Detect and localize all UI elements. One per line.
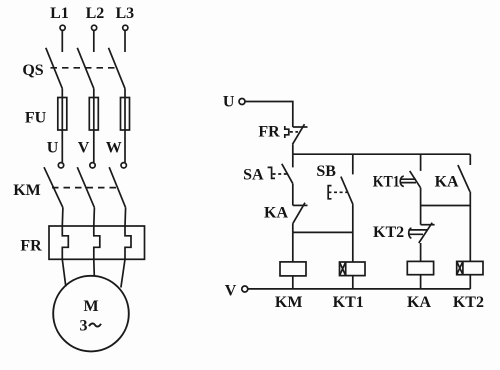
svg-text:SA: SA xyxy=(243,167,264,184)
FR NC contact seat tick xyxy=(293,126,308,128)
svg-text:SB: SB xyxy=(316,163,336,180)
wire KA right contact to node xyxy=(469,192,471,206)
wire KM to FR phase 3 xyxy=(124,208,127,226)
FR thermal actuator bracket xyxy=(285,126,289,138)
wire L2 terminal to QS xyxy=(93,31,95,52)
wire FR to motor lead 1 xyxy=(62,259,66,286)
terminal L2 xyxy=(92,25,97,30)
KM main contact blade phase 3 xyxy=(109,167,125,207)
KT1 delay symbol chords xyxy=(401,179,416,182)
wire FR to motor lead 3 xyxy=(121,259,125,287)
terminal L3 xyxy=(123,25,128,30)
FR heater element phase 2 xyxy=(94,226,100,259)
svg-text:FR: FR xyxy=(258,124,280,141)
KM main contact fixed terminal circle phase 3 xyxy=(121,163,126,168)
terminal U xyxy=(239,99,245,105)
svg-text:KA: KA xyxy=(264,205,288,222)
svg-text:V: V xyxy=(78,140,90,157)
svg-text:M: M xyxy=(83,298,98,315)
label SB xyxy=(316,163,336,180)
SA switch blade xyxy=(282,164,293,184)
label SA xyxy=(243,167,264,184)
svg-text:KM: KM xyxy=(13,182,41,199)
svg-text:L1: L1 xyxy=(50,5,69,22)
KA NC contact seat tick xyxy=(293,204,308,206)
wire node to KT2 contact xyxy=(420,206,422,225)
label L3 xyxy=(115,5,134,22)
label KA (right contact) xyxy=(435,174,459,191)
SA manual actuator xyxy=(268,167,275,178)
FR NC contact blade xyxy=(293,124,305,144)
svg-text:FU: FU xyxy=(25,110,47,127)
label QS xyxy=(22,62,43,79)
label U (control) xyxy=(223,94,235,111)
switch QS blade pole 2 xyxy=(77,48,94,89)
wire QS to FU phase 3 xyxy=(124,89,126,98)
svg-text:KT2: KT2 xyxy=(373,224,404,241)
SB pushbutton actuator xyxy=(328,186,331,199)
wire L1 terminal to QS xyxy=(61,31,63,52)
timer coil KT1 xyxy=(340,262,366,276)
wire KM coil to bottom bus xyxy=(292,276,294,289)
wire KA contact to node xyxy=(292,223,294,232)
wire KT1 coil to bottom bus xyxy=(352,276,354,289)
wire QS to FU phase 2 xyxy=(93,89,95,98)
label W (phase) xyxy=(106,140,122,157)
label KT2 (coil) xyxy=(453,294,484,311)
KM main contact blade phase 2 xyxy=(77,167,94,207)
FR heater element phase 3 xyxy=(125,226,131,259)
wire QS to FU phase 1 xyxy=(61,89,63,98)
label L1 xyxy=(50,5,69,22)
wire L3 terminal to QS xyxy=(124,31,126,52)
motor M circle xyxy=(53,276,129,352)
label V (phase) xyxy=(78,140,90,157)
svg-text:U: U xyxy=(47,140,59,157)
contactor coil KM xyxy=(280,262,306,276)
terminal V xyxy=(242,286,248,292)
KM main contact fixed terminal circle phase 2 xyxy=(90,163,95,168)
node wire between KM branch and KT1 branch xyxy=(293,231,353,233)
wire SB to KT1 coil xyxy=(352,205,354,262)
label 3~ (motor) xyxy=(80,318,102,335)
KM main contact blade phase 1 xyxy=(44,167,63,207)
wire bus to SA xyxy=(292,154,294,167)
label KM (coil) xyxy=(275,294,303,311)
terminal L1 xyxy=(60,25,65,30)
KT2 NC contact seat tick xyxy=(421,224,435,226)
KT1 coil delay hatch box xyxy=(340,262,346,276)
KM mechanical linkage dashed xyxy=(52,187,118,189)
svg-text:W: W xyxy=(106,140,122,157)
svg-text:KA: KA xyxy=(435,174,459,191)
wire KT2 coil to bottom bus xyxy=(469,275,471,289)
node wire between KT1 branch and KA branch xyxy=(421,205,471,207)
KA NC contact blade xyxy=(293,203,305,224)
KA NO contact blade (right) xyxy=(458,165,470,192)
label M (motor) xyxy=(83,298,98,315)
fuse FU phase 1 xyxy=(58,98,67,131)
KT2 delay symbol arc xyxy=(409,228,412,238)
svg-text:QS: QS xyxy=(22,62,43,79)
SB actuator dashed link xyxy=(328,191,347,193)
wire KM to FR phase 2 xyxy=(93,208,96,226)
label FU xyxy=(25,110,47,127)
svg-text:KT1: KT1 xyxy=(373,174,400,191)
svg-text:KT2: KT2 xyxy=(453,294,484,311)
wire node to KM coil xyxy=(292,232,294,262)
svg-text:L2: L2 xyxy=(86,5,105,22)
wire bus to KA right contact xyxy=(469,154,471,165)
FR heater element phase 1 xyxy=(62,226,68,259)
wire FU to KM phase 2 (through fuse) xyxy=(93,98,95,163)
label L2 xyxy=(86,5,105,22)
KT1 delayed contact blade xyxy=(410,171,421,188)
wire FU to KM phase 1 (through fuse) xyxy=(61,98,63,163)
label FR (power) xyxy=(20,238,42,255)
wire KA coil to bottom bus xyxy=(420,275,422,289)
switch QS blade pole 1 xyxy=(46,48,63,89)
wire KM to FR phase 1 xyxy=(61,208,64,226)
wire FU to KM phase 3 (through fuse) xyxy=(124,98,126,163)
fuse FU phase 2 xyxy=(89,98,98,131)
KM main contact fixed terminal circle phase 1 xyxy=(58,163,63,168)
wire SA to KA contact xyxy=(292,184,294,206)
svg-text:FR: FR xyxy=(20,238,42,255)
wire U terminal to corner xyxy=(245,102,293,128)
SB pushbutton blade xyxy=(341,177,353,205)
wire bus to KT1 contact xyxy=(420,154,422,171)
svg-text:V: V xyxy=(225,283,237,300)
label V (control) xyxy=(225,283,237,300)
wire KT1 contact down xyxy=(420,188,422,206)
svg-text:KA: KA xyxy=(407,294,431,311)
KT1 delay symbol arc xyxy=(400,176,404,186)
svg-text:KT1: KT1 xyxy=(333,294,364,311)
wire bus to SB xyxy=(352,154,354,174)
KT2 delay symbol chords xyxy=(408,230,427,234)
label KT2 (contact) xyxy=(373,224,404,241)
label FR (control) xyxy=(258,124,280,141)
label KT1 (contact) xyxy=(373,174,400,191)
label KT1 (coil) xyxy=(333,294,364,311)
wire node to KT2 coil xyxy=(469,206,471,262)
wire KT2 contact to KA coil xyxy=(420,243,422,261)
thermal overload relay FR box xyxy=(49,226,145,259)
label KM (power) xyxy=(13,182,41,199)
FR actuator dashed link xyxy=(290,131,298,133)
wire FR to motor lead 2 xyxy=(93,259,96,276)
KT2 coil delay hatch box xyxy=(457,261,463,274)
label U (phase) xyxy=(47,140,59,157)
svg-text:3: 3 xyxy=(80,318,88,335)
QS mechanical linkage dashed xyxy=(51,67,118,69)
timer coil KT2 xyxy=(457,261,483,274)
svg-text:U: U xyxy=(223,94,235,111)
svg-text:KM: KM xyxy=(275,294,303,311)
switch QS blade pole 3 xyxy=(109,48,126,89)
top bus wire xyxy=(293,153,471,155)
wire FR contact to top bus xyxy=(292,144,294,154)
svg-text:L3: L3 xyxy=(115,5,134,22)
SA actuator dashed link xyxy=(273,173,288,175)
label KA (coil) xyxy=(407,294,431,311)
label KA (left contact) xyxy=(264,205,288,222)
relay coil KA xyxy=(407,261,433,274)
fuse FU phase 3 xyxy=(121,98,130,131)
bottom bus wire xyxy=(248,288,470,290)
KT2 NC delayed contact blade xyxy=(419,223,432,243)
